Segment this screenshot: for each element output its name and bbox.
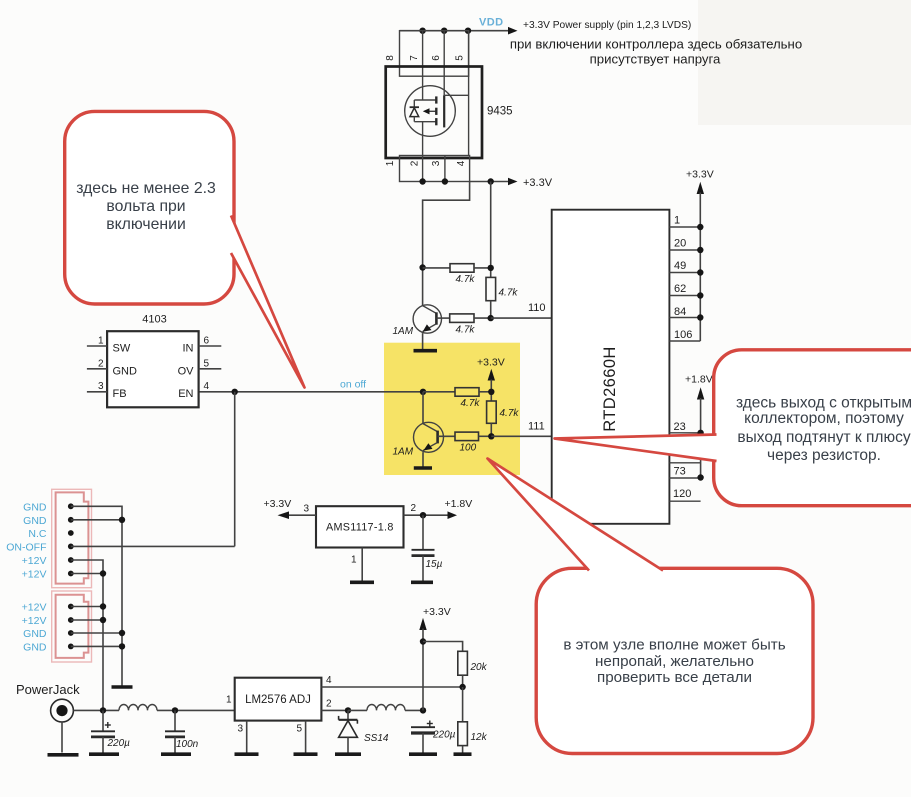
- svg-text:73: 73: [674, 466, 686, 478]
- pin 1 stub to ground: [351, 548, 362, 581]
- callout bubble B2: [555, 350, 911, 506]
- capacitor C1 220u electrolytic: [91, 710, 130, 752]
- svg-text:здесь не менее 2.3: здесь не менее 2.3: [76, 180, 216, 197]
- resistor R1 4.7k (horizontal): [423, 264, 491, 285]
- wire EN net from 4103 to Q2 base node: [199, 391, 423, 393]
- junction dot divider feed: [420, 638, 426, 644]
- resistor R2 4.7k (vertical): [486, 277, 518, 318]
- ground G9 (SS14): [335, 752, 361, 756]
- wire ON-OFF pin4 to EN branch: [71, 545, 235, 547]
- node dot Q2 collector node: [420, 389, 426, 395]
- resistor R3 4.7k (horizontal, base): [436, 314, 490, 336]
- junction dots on lower rail (pins 2,3 and divider feed): [419, 178, 494, 184]
- wire MOSFET source down through pin2 column: [422, 122, 424, 182]
- wire GND pin2: [71, 519, 122, 521]
- svg-text:EN: EN: [178, 388, 193, 400]
- svg-text:3: 3: [98, 381, 104, 392]
- svg-text:4.7k: 4.7k: [456, 274, 476, 285]
- wire gate top to pin5 column: [444, 94, 468, 96]
- svg-text:+3.3V: +3.3V: [477, 357, 505, 369]
- MOSFET symbol circle: [405, 86, 456, 137]
- svg-text:+3.3V: +3.3V: [264, 498, 292, 510]
- svg-text:1: 1: [385, 160, 396, 166]
- highlight yellow node area: [384, 343, 520, 475]
- resistor R5 4.7k (vertical): [487, 401, 520, 436]
- wire node to RTD2660H pin 111: [491, 435, 551, 437]
- CN1 pin 5: [68, 557, 74, 563]
- ground G2 (Q2 emitter): [414, 466, 432, 470]
- transistor Q2 1AM: [393, 392, 444, 458]
- pin 5 stub OV: [178, 358, 222, 377]
- wire +12V CN2 pin1: [71, 603, 106, 609]
- svg-text:6: 6: [431, 55, 442, 61]
- CN2 pin 4: [68, 644, 74, 650]
- svg-text:120: 120: [673, 488, 691, 500]
- MOSFET source stub and channel tick: [414, 118, 436, 125]
- wire +12V rail jack to inductor: [73, 709, 119, 711]
- ground G8 (pin5): [294, 752, 318, 756]
- svg-text:4.7k: 4.7k: [500, 408, 520, 419]
- ground G3 (connector GND bus): [112, 685, 133, 689]
- svg-text:4.7k: 4.7k: [461, 398, 481, 409]
- wire node to RTD2660H pin 110: [491, 317, 552, 319]
- svg-text:OV: OV: [178, 365, 195, 377]
- capacitor C4 15u: [412, 515, 443, 580]
- pin 3 stub with +3.3V input arrow: [264, 498, 317, 519]
- junction dots on +3.3V pin bus: [697, 224, 703, 321]
- wire pin7 column into MOSFET drain: [422, 31, 424, 100]
- wire EN node down to ON-OFF connector pin: [234, 392, 236, 547]
- svg-text:15µ: 15µ: [426, 559, 443, 570]
- pin ladder rungs pins 1..106: [669, 227, 700, 341]
- svg-text:4: 4: [326, 675, 332, 686]
- node dot Q1 collector: [419, 264, 425, 270]
- svg-text:220µ: 220µ: [432, 730, 456, 741]
- ground G4 (power jack): [48, 753, 79, 757]
- wire +12V CN2 pin2: [71, 617, 106, 623]
- pin 2 stub with +1.8V output arrow: [404, 498, 473, 519]
- svg-text:+12V: +12V: [22, 569, 47, 581]
- svg-text:проверить все детали: проверить все детали: [597, 669, 752, 686]
- svg-text:+3.3V: +3.3V: [523, 177, 553, 189]
- svg-text:4: 4: [456, 160, 467, 166]
- wire +3.3V rail down to R2: [490, 182, 492, 278]
- ground G10 (C3): [409, 752, 437, 756]
- pin 2 stub GND: [87, 358, 137, 377]
- resistor R4 4.7k (horizontal): [423, 388, 491, 409]
- pin 1 stub SW: [87, 336, 131, 355]
- CN1 pin 3: [68, 530, 74, 536]
- svg-text:5: 5: [204, 358, 210, 369]
- svg-text:6: 6: [204, 336, 210, 347]
- svg-text:20k: 20k: [470, 662, 488, 673]
- resistor R7 20k (vertical): [458, 651, 488, 687]
- pin 4 stub to feedback node: [321, 675, 462, 687]
- svg-text:4.7k: 4.7k: [499, 288, 519, 299]
- node dot EN branch to connector: [232, 389, 238, 395]
- wire +12V pin5 to +12V bus: [71, 560, 103, 710]
- wire GND CN2 pin4: [71, 643, 125, 649]
- wire GND pin1 to ground bus: [71, 506, 122, 686]
- wire to inductor L2: [348, 709, 367, 711]
- svg-text:8: 8: [385, 55, 396, 61]
- svg-text:GND: GND: [23, 501, 47, 513]
- svg-text:2: 2: [326, 699, 332, 710]
- resistor R6 100 (horizontal, base): [438, 432, 492, 453]
- svg-text:коллектором, поэтому: коллектором, поэтому: [744, 410, 904, 427]
- svg-text:1: 1: [98, 336, 104, 347]
- ground G13 (pin1): [350, 580, 374, 584]
- junction dot output node: [420, 707, 426, 713]
- background tint top-right: [698, 0, 911, 125]
- svg-text:62: 62: [674, 283, 686, 295]
- svg-text:106: 106: [674, 329, 692, 341]
- svg-text:+12V: +12V: [22, 602, 47, 614]
- svg-text:4: 4: [204, 381, 210, 392]
- pin 120 rung: [669, 500, 700, 502]
- svg-text:+3.3V: +3.3V: [686, 169, 714, 181]
- svg-text:7: 7: [409, 55, 420, 61]
- svg-text:100: 100: [460, 442, 477, 453]
- junction dot pin 73: [697, 474, 703, 480]
- IC U3 4103 body: [107, 331, 199, 407]
- svg-text:220µ: 220µ: [107, 738, 131, 749]
- connector CN2 housing: [52, 591, 92, 662]
- junction dot: [119, 517, 125, 523]
- svg-text:GND: GND: [23, 515, 47, 527]
- svg-text:2: 2: [410, 160, 421, 166]
- ground G5 (C1): [89, 752, 119, 756]
- svg-text:SS14: SS14: [364, 733, 389, 744]
- power +3.3V arrow (Q2 pull-up): [477, 357, 505, 402]
- wire Q2 emitter to ground: [422, 452, 424, 466]
- svg-text:+1.8V: +1.8V: [445, 498, 473, 510]
- svg-text:FB: FB: [113, 388, 127, 400]
- junction dot feedback node: [459, 684, 465, 690]
- pin 6 stub IN: [183, 336, 222, 355]
- svg-text:3: 3: [431, 160, 442, 166]
- ground G6 (C2): [161, 752, 191, 756]
- ground G7 (pin3): [235, 752, 259, 756]
- pin 23 rung: [669, 432, 700, 434]
- pin 73 box rungs: [669, 463, 700, 478]
- wire divider feed to 20k: [423, 642, 463, 652]
- power +3.3V top rail with arrow: [400, 20, 692, 35]
- wire L2 to output node: [405, 709, 423, 711]
- MOSFET drain stub and channel tick: [414, 96, 436, 103]
- resistor R8 12k (vertical): [458, 722, 488, 753]
- svg-text:N.C: N.C: [28, 528, 47, 540]
- svg-text:LM2576 ADJ: LM2576 ADJ: [245, 694, 311, 706]
- svg-text:1: 1: [226, 695, 232, 706]
- inductor L1: [119, 705, 157, 711]
- CN1 pin 1: [68, 503, 74, 509]
- svg-text:RTD2660H: RTD2660H: [601, 346, 619, 431]
- svg-text:110: 110: [528, 302, 546, 314]
- wire GND CN2 pin3: [71, 630, 125, 636]
- junction dot C2 node: [172, 707, 178, 713]
- wire pin3 column: [444, 156, 446, 182]
- pin 4 label EN: [178, 381, 209, 400]
- svg-text:4.7k: 4.7k: [456, 325, 476, 336]
- CN1 pin 4: [68, 544, 74, 550]
- svg-text:111: 111: [528, 421, 545, 433]
- CN1 pin 6: [68, 571, 74, 577]
- power +3.3V arrow (RTD pins bus): [686, 169, 714, 342]
- transistor Q1 1AM: [393, 305, 442, 337]
- IC U5 AMS1117-1.8 body: [316, 506, 404, 547]
- junction dot C4 node: [420, 512, 426, 518]
- svg-text:присутствует напруга: присутствует напруга: [590, 52, 721, 67]
- callout bubble B3: [488, 459, 814, 754]
- svg-text:100n: 100n: [176, 739, 199, 750]
- power +3.3V arrow on lower rail: [470, 177, 553, 189]
- svg-text:вольта при: вольта при: [106, 198, 185, 215]
- connector CN1 housing: [52, 489, 92, 587]
- svg-text:VDD: VDD: [479, 17, 503, 29]
- svg-text:20: 20: [674, 238, 686, 250]
- ground G1 (Q1 emitter): [414, 349, 438, 353]
- svg-text:здесь выход с открытым: здесь выход с открытым: [736, 395, 911, 412]
- svg-text:+12V: +12V: [22, 555, 47, 567]
- wire pin6 column to gate bar: [443, 31, 445, 96]
- IC U2 RTD2660H body: [552, 210, 670, 524]
- svg-text:выход подтянут к плюсу: выход подтянут к плюсу: [737, 429, 910, 446]
- svg-text:2: 2: [411, 503, 417, 514]
- svg-text:GND: GND: [113, 365, 138, 377]
- MOSFET gate plate bar: [443, 95, 445, 127]
- IC U4 LM2576 ADJ body: [235, 678, 322, 721]
- svg-text:1: 1: [351, 555, 357, 566]
- svg-text:1AM: 1AM: [393, 326, 414, 337]
- svg-text:+12V: +12V: [22, 615, 47, 627]
- junction dot: [100, 570, 106, 576]
- node dot R4/R5 junction: [488, 389, 494, 395]
- svg-text:при включении контроллера здес: при включении контроллера здесь обязател…: [510, 37, 802, 52]
- svg-text:3: 3: [303, 504, 309, 515]
- CN1 pin 2: [68, 517, 74, 523]
- connector J1 power jack: [51, 699, 74, 752]
- junction dot pin 23: [697, 430, 703, 436]
- wire pin5 column down to bottom block: [468, 31, 470, 156]
- svg-text:84: 84: [674, 306, 686, 318]
- power +3.3V arrow (regulator output): [419, 606, 450, 710]
- svg-text:через резистор.: через резистор.: [767, 447, 881, 464]
- capacitor C2 100n: [165, 710, 199, 752]
- transistor Q3 9435 package body: [386, 67, 482, 159]
- pin 2 stub switch output: [321, 699, 348, 711]
- CN2 pin 3: [68, 630, 74, 636]
- svg-text:ON-OFF: ON-OFF: [6, 541, 46, 553]
- node dot R1/R2 junction: [488, 265, 494, 271]
- ground G12 (C4): [411, 580, 433, 584]
- wire +12V pin6: [71, 573, 103, 575]
- transistor Q3 9435 package top pin block: [400, 31, 469, 76]
- svg-text:GND: GND: [23, 628, 47, 640]
- svg-text:GND: GND: [23, 641, 47, 653]
- junction dots on top rail (pins 7,6,5): [419, 28, 471, 34]
- wire Q1 collector node down to Q1: [422, 268, 424, 307]
- svg-text:9435: 9435: [487, 106, 513, 118]
- svg-text:+1.8V: +1.8V: [685, 374, 713, 386]
- svg-text:1AM: 1AM: [393, 447, 414, 458]
- body diode of MOSFET: [410, 100, 419, 122]
- svg-text:49: 49: [674, 260, 686, 272]
- svg-text:3: 3: [237, 724, 243, 735]
- svg-text:в этом узле вполне может быть: в этом узле вполне может быть: [563, 637, 785, 654]
- svg-text:2: 2: [98, 358, 104, 369]
- callout bubble B1: [65, 111, 305, 387]
- svg-text:SW: SW: [113, 342, 131, 354]
- svg-text:4103: 4103: [142, 314, 166, 326]
- svg-text:on off: on off: [340, 378, 366, 390]
- CN2 pin 2: [68, 617, 74, 623]
- ground G11 (12k): [454, 752, 472, 756]
- svg-text:12k: 12k: [471, 732, 488, 743]
- wire pin4 L-bend down to Q1 collector node: [423, 182, 470, 268]
- junction dot diode node: [345, 707, 351, 713]
- svg-text:IN: IN: [183, 342, 194, 354]
- pin 3 stub to ground: [237, 721, 246, 753]
- svg-text:5: 5: [296, 724, 302, 735]
- capacitor C3 220u electrolytic: [411, 721, 456, 753]
- pin 3 stub FB: [87, 381, 127, 400]
- svg-text:1: 1: [674, 215, 680, 227]
- svg-text:+3.3V: +3.3V: [423, 606, 451, 618]
- power +1.8V arrow (pin 23 pull-up): [685, 374, 713, 478]
- wire inductor to LM2576 pin1: [157, 709, 235, 711]
- svg-text:23: 23: [674, 421, 686, 433]
- diode D1 SS14: [339, 710, 389, 752]
- transistor Q3 9435 package bottom pin block: [400, 156, 470, 182]
- MOSFET gate stub with arrow: [423, 108, 437, 115]
- node dot pin110 net: [488, 315, 494, 321]
- node dot pin111 net: [488, 433, 494, 439]
- wire feedback node to 12k: [462, 687, 464, 722]
- svg-text:PowerJack: PowerJack: [16, 682, 80, 697]
- svg-text:непропай, желательно: непропай, желательно: [595, 653, 754, 670]
- svg-text:+3.3V Power supply (pin 1,2,3: +3.3V Power supply (pin 1,2,3 LVDS): [523, 20, 691, 31]
- inductor L2: [367, 705, 405, 711]
- svg-text:включении: включении: [106, 216, 186, 233]
- svg-text:AMS1117-1.8: AMS1117-1.8: [326, 522, 394, 534]
- pin 5 stub to ground: [296, 721, 305, 753]
- svg-text:5: 5: [455, 55, 466, 61]
- junction dot C1 node: [100, 707, 106, 713]
- wire Q1 emitter to ground: [422, 333, 424, 349]
- CN2 pin 1: [68, 604, 74, 610]
